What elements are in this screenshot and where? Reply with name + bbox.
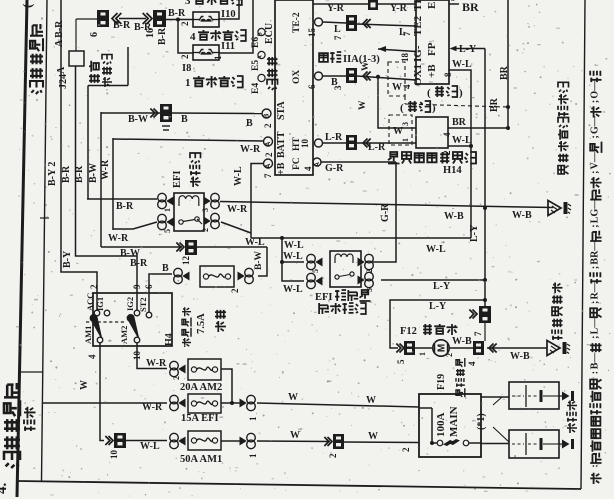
svg-text:A: A bbox=[314, 162, 321, 167]
svg-text:2: 2 bbox=[264, 152, 274, 157]
svg-text:BR: BR bbox=[489, 97, 500, 112]
wire W-L sensor pin2 to ground bbox=[442, 135, 473, 155]
ECU 发动机ECU box bbox=[275, 0, 313, 175]
svg-text:1: 1 bbox=[163, 208, 172, 212]
J24 label frame bbox=[88, 47, 128, 86]
fuse 20A AM2 bbox=[170, 359, 221, 380]
svg-text:BR: BR bbox=[452, 117, 467, 128]
svg-text:B: B bbox=[258, 32, 264, 36]
svg-text:BR: BR bbox=[499, 65, 510, 80]
battery 1 ground bbox=[559, 391, 574, 401]
wire BR vertical bbox=[449, 0, 510, 128]
svg-text:;: ; bbox=[590, 171, 601, 174]
svg-text::: : bbox=[590, 464, 601, 467]
svg-text:(*1): (*1) bbox=[476, 413, 487, 430]
svg-text:I11: I11 bbox=[221, 41, 235, 52]
ignition switch top pins bbox=[85, 284, 154, 318]
svg-text:(: ( bbox=[400, 102, 404, 114]
svg-text:F19: F19 bbox=[436, 374, 447, 390]
label 7.5A 起动 bbox=[196, 310, 226, 334]
svg-text:B-Y 2: B-Y 2 bbox=[47, 162, 58, 186]
label 100A MAIN bbox=[435, 406, 460, 437]
svg-text:4.: 4. bbox=[0, 483, 10, 495]
svg-text:OX: OX bbox=[292, 70, 302, 84]
wire L TE2 bbox=[323, 22, 416, 38]
svg-text:ST2: ST2 bbox=[138, 297, 148, 312]
svg-text:A: A bbox=[265, 164, 272, 169]
label 翼子板附近排气管 bbox=[558, 82, 569, 174]
exhaust pipe ground bbox=[548, 201, 561, 216]
svg-text:2: 2 bbox=[263, 123, 273, 128]
svg-text:2: 2 bbox=[201, 228, 210, 232]
svg-text:F12: F12 bbox=[400, 326, 417, 337]
svg-text:5: 5 bbox=[163, 229, 172, 233]
svg-text:W-B: W-B bbox=[452, 336, 472, 347]
section divider tick bbox=[18, 371, 43, 373]
svg-text:;: ; bbox=[590, 266, 601, 269]
wire injector I11 out bbox=[219, 0, 253, 53]
svg-text:W: W bbox=[288, 392, 298, 403]
wire B-W to fuse right bbox=[197, 247, 267, 276]
svg-text:): ) bbox=[459, 87, 463, 99]
svg-text:W-L: W-L bbox=[283, 251, 303, 262]
svg-text:(: ( bbox=[20, 4, 35, 8]
svg-text:+B: +B bbox=[276, 162, 287, 175]
wire AM2 fuse output bbox=[172, 369, 234, 405]
label F12 燃油泵 bbox=[400, 324, 458, 337]
fuel pump connector 4 bbox=[449, 336, 497, 366]
svg-text:TE-2: TE-2 bbox=[292, 12, 302, 33]
svg-text:V—: V— bbox=[590, 151, 601, 169]
svg-text:G—: G— bbox=[590, 115, 601, 134]
svg-text:W: W bbox=[290, 430, 300, 441]
svg-text:3: 3 bbox=[451, 0, 455, 3]
svg-text:W-L: W-L bbox=[284, 240, 304, 251]
ignition switch bottom pins bbox=[83, 326, 142, 360]
wire W-R from AM2 bbox=[137, 343, 167, 369]
wire W into main fuse box bbox=[344, 431, 419, 452]
svg-text:2: 2 bbox=[328, 453, 338, 458]
svg-text:IG-: IG- bbox=[412, 45, 424, 62]
svg-text:W-L: W-L bbox=[426, 244, 446, 255]
svg-text:B-R: B-R bbox=[113, 20, 131, 31]
svg-text:W-R: W-R bbox=[142, 402, 163, 413]
svg-text:B-R: B-R bbox=[61, 165, 72, 183]
EFI relay EFI继电器 box bbox=[174, 193, 204, 231]
connector 7 on L-Y bbox=[469, 306, 491, 341]
connector on OX wire bbox=[333, 68, 371, 90]
svg-text:B: B bbox=[181, 114, 188, 125]
svg-text:3: 3 bbox=[201, 208, 210, 212]
ECU pin +B bbox=[263, 159, 287, 178]
svg-text:W-L: W-L bbox=[140, 441, 160, 452]
label B-R bus1 bbox=[61, 165, 148, 269]
starter fuse 7.5A bbox=[174, 266, 254, 293]
svg-text::: : bbox=[590, 371, 601, 374]
circuit opening relay EFI电路开路继电器 bbox=[330, 251, 361, 287]
wire from IIA(1-3) bbox=[378, 46, 416, 52]
svg-text:W-B: W-B bbox=[512, 210, 532, 221]
svg-text:7: 7 bbox=[402, 31, 412, 36]
svg-text:J24: J24 bbox=[58, 74, 69, 89]
svg-text:100A: 100A bbox=[435, 413, 447, 438]
shield drain dashed wire bbox=[405, 96, 510, 109]
svg-text:W-R: W-R bbox=[240, 144, 261, 155]
label J24 bbox=[58, 55, 112, 90]
svg-text:MAIN: MAIN bbox=[448, 406, 460, 437]
svg-text:BR: BR bbox=[462, 0, 479, 14]
svg-text:ECU: ECU bbox=[264, 23, 275, 44]
svg-text:O—: O— bbox=[590, 80, 601, 99]
sensor left pin wires bbox=[401, 122, 410, 142]
ECU pin HT bbox=[292, 137, 323, 151]
wire injector I10 out bbox=[219, 0, 239, 19]
junction box pin names bbox=[412, 0, 438, 86]
svg-text:W-B: W-B bbox=[444, 211, 464, 222]
left margin title 发动机控制( bbox=[20, 4, 44, 94]
svg-text:W: W bbox=[392, 82, 402, 93]
svg-text:BATT: BATT bbox=[276, 131, 287, 158]
connector on HT wire bbox=[346, 135, 371, 150]
svg-text:W-L: W-L bbox=[452, 135, 472, 146]
wire B OX to sensor bbox=[323, 61, 416, 128]
junction box OX1/IG-/TE2 +B/FP bbox=[416, 0, 449, 84]
svg-text:W-R: W-R bbox=[100, 159, 111, 180]
svg-text:3: 3 bbox=[185, 0, 191, 7]
right rear fender ground bbox=[547, 341, 560, 356]
connector on TE2 wire bbox=[333, 15, 371, 40]
ECU pin TE2 bbox=[292, 12, 323, 37]
connector EF on W wire bbox=[324, 434, 344, 458]
wire B-R connector link bbox=[113, 19, 152, 34]
svg-text:1: 1 bbox=[401, 138, 410, 142]
svg-text:ACC: ACC bbox=[85, 293, 95, 311]
svg-text:(: ( bbox=[427, 87, 431, 99]
svg-text:10: 10 bbox=[109, 450, 119, 460]
wire W-R relay output / W-B to exhaust ground bbox=[220, 202, 553, 223]
svg-text:E4: E4 bbox=[251, 83, 261, 94]
svg-text:W: W bbox=[358, 100, 368, 110]
svg-text:1: 1 bbox=[213, 55, 223, 60]
label 3号喷油器 bbox=[185, 0, 242, 7]
svg-text:+B: +B bbox=[426, 64, 438, 78]
svg-text:4: 4 bbox=[442, 132, 452, 137]
svg-text:10: 10 bbox=[300, 139, 310, 149]
svg-text:OX1: OX1 bbox=[412, 64, 424, 86]
svg-text:2: 2 bbox=[230, 288, 240, 293]
svg-text:FC: FC bbox=[292, 157, 302, 170]
label 加热式氧传感器 H14 bbox=[388, 152, 476, 176]
svg-text:W: W bbox=[79, 380, 90, 390]
wire W-R bus bbox=[112, 138, 114, 230]
junction box left pin ticks bbox=[402, 84, 412, 89]
svg-text:4: 4 bbox=[467, 361, 477, 366]
injector I10 bbox=[180, 12, 219, 27]
svg-text:3: 3 bbox=[401, 122, 410, 126]
svg-text:12: 12 bbox=[181, 256, 191, 266]
svg-text:B-W: B-W bbox=[120, 248, 140, 259]
ignition switch contacts bbox=[86, 315, 139, 338]
junction box pin8 W-L bbox=[443, 59, 472, 238]
svg-text:W: W bbox=[368, 431, 378, 442]
border tick bbox=[40, 217, 49, 219]
svg-text:B—: B— bbox=[590, 352, 601, 370]
svg-text:6: 6 bbox=[307, 84, 317, 89]
svg-text:): ) bbox=[432, 102, 436, 114]
svg-text:G-R: G-R bbox=[380, 203, 391, 222]
left section border bbox=[42, 0, 48, 481]
svg-text:4: 4 bbox=[190, 31, 196, 43]
svg-text:A: A bbox=[56, 66, 67, 74]
svg-text:IG1: IG1 bbox=[95, 297, 105, 311]
connector J24 配线连接器 bbox=[69, 19, 97, 66]
svg-text:W: W bbox=[361, 61, 371, 71]
EFI relay right pins bbox=[201, 193, 219, 232]
svg-text:B: B bbox=[246, 118, 253, 129]
wire B from ST2 bbox=[149, 263, 172, 312]
svg-text:W-L: W-L bbox=[283, 284, 303, 295]
svg-text:4: 4 bbox=[402, 84, 412, 89]
fuse 15A EFI bbox=[170, 394, 221, 413]
100A MAIN fuse element bbox=[419, 408, 481, 446]
svg-text:;: ; bbox=[590, 301, 601, 304]
svg-text:H4: H4 bbox=[164, 333, 175, 346]
wire W-R to BATT bbox=[113, 139, 264, 155]
svg-text:7.5A: 7.5A bbox=[196, 313, 207, 334]
svg-text:B-R: B-R bbox=[168, 8, 186, 19]
svg-text:3: 3 bbox=[333, 85, 343, 90]
svg-text:B-R: B-R bbox=[157, 27, 168, 45]
bottom-left title 4.发动机控制 bbox=[0, 383, 20, 494]
circuit opening relay pins bbox=[307, 254, 374, 292]
wire W-B pump to ground bbox=[487, 348, 547, 362]
fuel pump connector 5 bbox=[396, 341, 415, 364]
svg-text:6: 6 bbox=[89, 32, 100, 37]
wire L-R to sensor bbox=[323, 132, 416, 153]
oxygen sensor H14 box bbox=[416, 117, 448, 148]
svg-text:W-R: W-R bbox=[108, 233, 129, 244]
shield box upper (屏蔽) bbox=[388, 62, 405, 96]
label EFI电路开路继电器 bbox=[315, 290, 371, 314]
svg-text:E6: E6 bbox=[251, 37, 261, 48]
ECU pin STA bbox=[262, 101, 287, 128]
injector I11 bbox=[180, 45, 223, 60]
svg-text:E5: E5 bbox=[251, 60, 261, 71]
svg-text:B: B bbox=[162, 263, 169, 274]
label 蓄电池 bbox=[567, 401, 577, 434]
svg-text:1: 1 bbox=[185, 77, 191, 89]
svg-text:TE2: TE2 bbox=[412, 15, 424, 36]
svg-text:B-W: B-W bbox=[88, 163, 99, 183]
svg-text:M: M bbox=[437, 344, 448, 352]
wire BR sensor pin4 bbox=[442, 117, 510, 137]
wire to battery 2 bbox=[481, 443, 509, 445]
bottom page border bbox=[18, 481, 581, 489]
svg-text:W-L: W-L bbox=[233, 166, 244, 186]
label F19 保险丝盒 bbox=[436, 358, 465, 397]
svg-text:;: ; bbox=[590, 336, 601, 339]
label (屏蔽) 1 bbox=[427, 86, 463, 99]
ECU pin FC bbox=[292, 157, 321, 171]
connector 16 bbox=[143, 10, 168, 45]
svg-text:W: W bbox=[366, 395, 376, 406]
svg-text:B-W: B-W bbox=[128, 114, 148, 125]
svg-text:2: 2 bbox=[172, 376, 181, 380]
svg-text:50A AM1: 50A AM1 bbox=[180, 454, 222, 465]
svg-text:1: 1 bbox=[418, 352, 427, 356]
battery 2 ground bbox=[559, 439, 574, 449]
label E4 E5 E6 connectors bbox=[251, 28, 265, 94]
svg-text:;: ; bbox=[590, 135, 601, 138]
svg-text:2: 2 bbox=[180, 21, 190, 26]
svg-text:;: ; bbox=[590, 224, 601, 227]
wire B-Y bus bbox=[61, 0, 97, 310]
battery 2 box bbox=[509, 430, 559, 458]
connector on Y-R wire bbox=[368, 0, 378, 10]
wire B-R bus (J24 feed) bbox=[76, 66, 138, 310]
svg-text:W: W bbox=[393, 126, 403, 137]
svg-text:I8: I8 bbox=[182, 63, 191, 74]
label 4号喷油器 bbox=[190, 30, 246, 43]
wire EFI fuse output bbox=[221, 392, 419, 421]
wire to battery 1 bbox=[481, 396, 509, 398]
svg-text:B-Y: B-Y bbox=[62, 250, 73, 268]
connector on STA wire bbox=[150, 104, 172, 130]
wire B-R to injectors bbox=[166, 8, 193, 53]
svg-text:Y-R: Y-R bbox=[327, 3, 345, 14]
svg-text:B-R: B-R bbox=[116, 201, 134, 212]
wire W-L drops to relay2 bbox=[280, 238, 304, 295]
svg-text:8: 8 bbox=[443, 72, 453, 77]
svg-text:2: 2 bbox=[401, 447, 411, 452]
svg-text:2: 2 bbox=[445, 353, 454, 357]
wire G-R from FC bbox=[321, 162, 396, 262]
svg-text:B-R: B-R bbox=[130, 258, 148, 269]
svg-text:5: 5 bbox=[311, 269, 320, 273]
svg-text:B-R: B-R bbox=[74, 165, 85, 183]
wire W-L long line bbox=[245, 236, 471, 255]
svg-text:L-Y: L-Y bbox=[429, 301, 447, 312]
label (*1) bbox=[476, 397, 509, 442]
svg-text:15: 15 bbox=[307, 28, 317, 38]
fuel pump motor bbox=[415, 340, 454, 357]
wire B-R into relay bbox=[87, 199, 157, 212]
wire AM1 fuse output bbox=[221, 430, 330, 458]
ECU pin Y-R top bbox=[313, 3, 416, 14]
right page border bbox=[581, 0, 585, 489]
svg-text:15A EFI: 15A EFI bbox=[181, 413, 219, 424]
wire B-R bus2 bbox=[87, 86, 89, 200]
EFI relay left pins bbox=[158, 193, 174, 233]
svg-text:7: 7 bbox=[263, 173, 273, 178]
label EFI继电器 bbox=[172, 153, 201, 188]
svg-text:2: 2 bbox=[89, 284, 99, 289]
right legend note bbox=[590, 71, 602, 484]
svg-text:AM1: AM1 bbox=[83, 326, 93, 344]
svg-text:BR—: BR— bbox=[590, 240, 601, 265]
ECU pin OX bbox=[292, 70, 323, 89]
fusible link box F19 保险丝盒 bbox=[419, 394, 481, 457]
svg-text:IG2: IG2 bbox=[125, 297, 135, 311]
left label 电源 bbox=[24, 407, 36, 431]
battery 1 box bbox=[509, 382, 559, 409]
svg-text:L-Y: L-Y bbox=[459, 44, 477, 55]
svg-text:W-R: W-R bbox=[227, 204, 248, 215]
svg-text:B-W: B-W bbox=[254, 251, 264, 271]
svg-text:9: 9 bbox=[132, 284, 142, 289]
label B-Y 2 bbox=[47, 162, 73, 268]
svg-text:LG—: LG— bbox=[590, 198, 601, 223]
svg-text:W-B: W-B bbox=[510, 351, 530, 362]
svg-text:A B-R: A B-R bbox=[54, 20, 65, 47]
svg-text:TE1: TE1 bbox=[412, 0, 424, 11]
label H4 点火开关 bbox=[164, 307, 191, 347]
wire W to EFI fuse bbox=[42, 402, 167, 413]
svg-text:L-R: L-R bbox=[325, 132, 343, 143]
svg-text:W-L: W-L bbox=[452, 59, 472, 70]
svg-text:5: 5 bbox=[396, 359, 406, 364]
svg-text:16: 16 bbox=[145, 28, 156, 38]
svg-text:18: 18 bbox=[400, 53, 410, 63]
wire B to STA bbox=[101, 113, 262, 129]
label 来自IIA(1-3) bbox=[319, 52, 410, 65]
label I8 1号喷油器 bbox=[182, 63, 243, 89]
label 右后翼子板 bbox=[552, 283, 563, 341]
svg-text:A: A bbox=[258, 55, 264, 59]
label A B-R pins bbox=[54, 20, 67, 74]
svg-text:G-R: G-R bbox=[325, 163, 344, 174]
wire L-Y FP to fuel pump bbox=[450, 44, 488, 306]
wire L-Y relay to pump feed bbox=[381, 278, 487, 292]
ignition switch H4 点火开关 box bbox=[93, 293, 172, 346]
label 发动机ECU bbox=[264, 23, 278, 90]
wire W-L from +B to relay bbox=[221, 164, 264, 239]
svg-text:1: 1 bbox=[248, 416, 258, 421]
svg-text:B: B bbox=[264, 114, 271, 119]
svg-text:2: 2 bbox=[180, 54, 190, 59]
svg-text:L-R: L-R bbox=[368, 142, 386, 153]
wire B-W bus bbox=[100, 112, 102, 247]
label (屏蔽) 2 bbox=[400, 101, 436, 114]
svg-text:4: 4 bbox=[303, 166, 313, 171]
svg-text:FP: FP bbox=[426, 42, 438, 56]
svg-text:Y-R: Y-R bbox=[390, 3, 408, 14]
wire W-L from AM1 bbox=[79, 343, 104, 441]
svg-text:L—: L— bbox=[590, 317, 601, 335]
page spine edge line bbox=[17, 0, 27, 497]
ECU pin BATT bbox=[264, 131, 288, 158]
svg-text:E: E bbox=[426, 2, 438, 9]
svg-text:1: 1 bbox=[248, 453, 258, 458]
svg-text:7: 7 bbox=[333, 35, 343, 40]
svg-text:7: 7 bbox=[473, 331, 483, 336]
svg-text:AM2: AM2 bbox=[119, 326, 129, 344]
svg-text:;: ; bbox=[590, 100, 601, 103]
svg-text:W-R: W-R bbox=[146, 358, 167, 369]
wire L-Y branch to pump connector bbox=[390, 298, 487, 348]
svg-text:20A AM2: 20A AM2 bbox=[180, 382, 222, 393]
svg-text:EFI: EFI bbox=[172, 170, 183, 188]
svg-text:H14: H14 bbox=[443, 165, 462, 176]
wire B-W to starter fuse bbox=[101, 247, 182, 259]
connector 12 on B-W bbox=[176, 240, 197, 265]
wire W-R into relay bbox=[108, 222, 157, 244]
svg-text:STA: STA bbox=[276, 101, 287, 120]
fuse 50A AM1 bbox=[126, 431, 221, 450]
svg-text:A: A bbox=[265, 142, 272, 147]
connector 6 bbox=[89, 10, 121, 37]
shield box lower bbox=[389, 115, 412, 145]
